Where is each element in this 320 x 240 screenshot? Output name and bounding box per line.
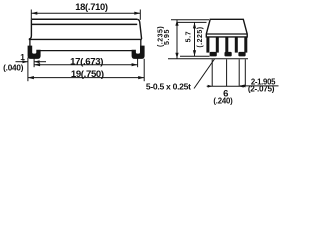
dimension line 6 — [207, 85, 246, 87]
base side left — [29, 39, 31, 47]
end view: body outline — [206, 19, 247, 37]
extension line 18 right — [139, 10, 141, 20]
end view: flange line — [206, 33, 247, 35]
svg-text:19(.750): 19(.750) — [71, 69, 104, 80]
extension line 19 right — [143, 59, 145, 81]
extension line x34 — [33, 58, 35, 68]
dimension line 1 left arrow — [16, 61, 28, 63]
extension line pin2 center — [226, 59, 228, 86]
svg-text:(2-.075): (2-.075) — [248, 85, 275, 94]
leader line terminal note — [194, 59, 215, 89]
foot pad 2 — [225, 52, 232, 57]
extension line 17 right — [137, 55, 139, 68]
extension line top (5.95) — [171, 19, 209, 21]
svg-text:(.225): (.225) — [197, 26, 204, 47]
dimension line 1 right arrow — [34, 61, 46, 63]
extension line pin1 center — [211, 59, 213, 86]
pin 5 — [244, 37, 247, 53]
pin 2 — [216, 37, 219, 53]
base side right — [140, 39, 142, 47]
right J-lead foot — [132, 46, 144, 59]
leader line 2-1.905 — [240, 85, 279, 87]
relay side view: left edge — [29, 19, 32, 39]
pin 3 — [225, 37, 228, 53]
foot pad 1 — [210, 52, 217, 57]
svg-text:17(.673): 17(.673) — [70, 56, 103, 67]
svg-text:18(.710): 18(.710) — [75, 1, 108, 12]
extension line (5.7 bottom) — [180, 55, 210, 57]
dimension line 19 — [28, 77, 144, 79]
svg-text:5-0.5 x 0.25t: 5-0.5 x 0.25t — [146, 82, 191, 92]
relay side view: lid seam line — [32, 23, 137, 25]
dimension line 18 — [31, 12, 140, 14]
svg-text:5.7: 5.7 — [186, 31, 193, 43]
extension line pin edge right — [244, 59, 246, 86]
relay side view: bottom edge — [29, 38, 142, 40]
svg-text:(.240): (.240) — [213, 96, 233, 105]
extension line top (5.7) — [177, 21, 207, 23]
extension line pin3 center — [238, 59, 240, 86]
left J-lead foot — [28, 46, 40, 59]
vertical dimension line 5.95 — [176, 20, 178, 59]
relay side view: top edge (lid) — [32, 18, 138, 20]
svg-text:(.040): (.040) — [3, 63, 24, 72]
relay side view: right edge — [137, 19, 141, 39]
extension line x28 — [27, 58, 29, 82]
vertical dimension line 5.7 — [194, 22, 196, 56]
pin 4 — [235, 37, 238, 53]
extension line 18 left — [30, 10, 32, 20]
pin 1 — [206, 37, 209, 53]
svg-text:5.95: 5.95 — [164, 29, 171, 45]
foot pad 3 — [238, 52, 245, 57]
dimension line 17 — [34, 64, 138, 66]
seating plane line — [168, 58, 248, 60]
bottom line between feet — [40, 50, 132, 52]
